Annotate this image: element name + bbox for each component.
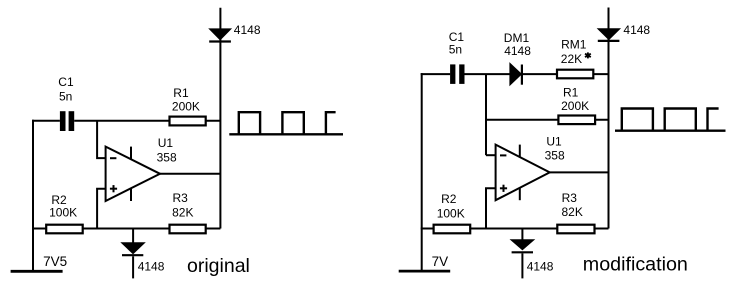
waveform output original <box>229 112 343 134</box>
resistor R2 <box>46 225 82 234</box>
wire left rail vertical <box>421 73 423 271</box>
svg-text:5n: 5n <box>59 90 72 104</box>
wire right rail vertical <box>219 8 221 229</box>
svg-text:RM1: RM1 <box>561 38 587 52</box>
op-amp minus sign <box>500 154 506 156</box>
wire bottom R2 to R3 to right rail <box>32 228 220 230</box>
svg-text:R3: R3 <box>173 191 189 205</box>
wire node A to R1 to right rail <box>486 119 609 121</box>
power rail 7V5 <box>11 270 63 273</box>
resistor R3 <box>170 225 206 234</box>
svg-text:100K: 100K <box>49 206 77 220</box>
wire output <box>550 171 609 173</box>
op-amp U1 <box>106 147 160 201</box>
svg-text:82K: 82K <box>172 205 193 219</box>
svg-text:4148: 4148 <box>138 259 165 273</box>
diode 4148 bottom <box>122 229 143 279</box>
svg-text:R3: R3 <box>562 191 578 205</box>
resistor R1 <box>558 116 595 125</box>
capacitor C1 <box>450 64 464 84</box>
op-amp power pin bottom <box>519 188 521 201</box>
svg-text:R1: R1 <box>563 85 579 99</box>
wire node A to inverting input <box>97 121 106 158</box>
svg-text:original: original <box>187 255 250 277</box>
diode 4148 top <box>598 29 620 41</box>
svg-text:U1: U1 <box>546 134 562 148</box>
op-amp power pin top <box>519 145 521 158</box>
wire C1 to R1 and to right rail <box>74 120 220 122</box>
diode 4148 top <box>209 29 231 41</box>
svg-text:DM1: DM1 <box>504 31 530 45</box>
svg-text:22K: 22K <box>561 52 582 66</box>
svg-text:C1: C1 <box>58 75 74 89</box>
svg-text:4148: 4148 <box>527 260 554 274</box>
op-amp power pin top <box>130 147 132 160</box>
svg-text:4148: 4148 <box>234 23 261 37</box>
resistor RM1 <box>557 70 593 79</box>
op-amp U1 <box>496 145 550 201</box>
svg-text:7V: 7V <box>432 254 449 269</box>
svg-text:200K: 200K <box>561 99 589 113</box>
wire C1 to DM1 to RM1 to right rail <box>465 73 609 75</box>
waveform output modification <box>615 109 726 131</box>
svg-text:4148: 4148 <box>504 44 531 58</box>
wire rail to C1 <box>32 120 60 122</box>
wire right rail vertical <box>608 8 610 229</box>
svg-text:5n: 5n <box>449 43 462 57</box>
wire left rail vertical <box>32 120 34 271</box>
svg-text:358: 358 <box>157 150 177 164</box>
wire rail to C1 <box>421 73 451 75</box>
svg-text:7V5: 7V5 <box>43 254 67 269</box>
op-amp power pin bottom <box>130 188 132 201</box>
op-amp plus sign <box>500 185 507 192</box>
svg-text:U1: U1 <box>158 136 174 150</box>
wire noninverting input <box>97 189 106 229</box>
resistor R3 <box>557 225 594 234</box>
op-amp minus sign <box>110 157 116 159</box>
resistor R2 <box>434 225 471 234</box>
resistor R1 <box>170 117 206 126</box>
svg-text:82K: 82K <box>562 205 583 219</box>
svg-text:R2: R2 <box>441 192 457 206</box>
capacitor C1 <box>60 111 74 131</box>
diode 4148 bottom <box>512 229 533 279</box>
svg-text:358: 358 <box>545 149 565 163</box>
svg-text:modification: modification <box>583 254 688 276</box>
wire bottom R2 to R3 to right rail <box>421 228 609 230</box>
power rail 7V <box>399 270 451 273</box>
svg-text:100K: 100K <box>437 206 465 220</box>
wire noninverting input <box>486 188 496 228</box>
wire output <box>160 173 220 175</box>
wire to inverting input <box>486 154 496 156</box>
diode DM1 <box>510 64 522 84</box>
op-amp plus sign <box>110 185 117 192</box>
svg-text:4148: 4148 <box>623 23 650 37</box>
svg-text:200K: 200K <box>172 100 200 114</box>
wire node A vertical <box>485 74 487 155</box>
asterisk of 22K <box>585 52 591 58</box>
svg-text:R1: R1 <box>173 86 189 100</box>
